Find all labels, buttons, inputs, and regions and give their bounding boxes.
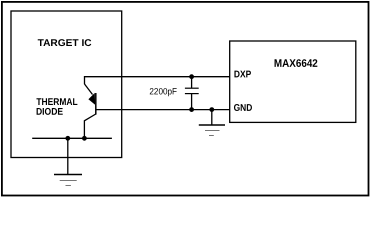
- svg-text:2200pF: 2200pF: [149, 86, 177, 96]
- svg-text:TARGET IC: TARGET IC: [38, 38, 92, 49]
- svg-text:GND: GND: [234, 103, 253, 114]
- svg-text:MAX6642: MAX6642: [274, 58, 318, 70]
- svg-text:DIODE: DIODE: [36, 107, 64, 118]
- svg-text:DXP: DXP: [234, 69, 252, 80]
